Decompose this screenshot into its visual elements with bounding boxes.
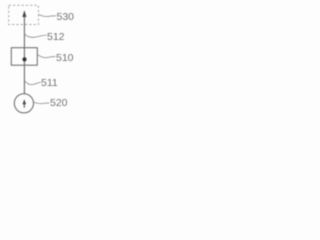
- wire from dot down to circle 520: [23, 61, 25, 94]
- arrowhead in dashed box: [22, 10, 26, 17]
- arrowhead in circle 520: [23, 99, 27, 104]
- svg-text:511: 511: [41, 77, 58, 89]
- svg-text:520: 520: [50, 97, 68, 109]
- circle 520: [14, 94, 33, 113]
- leader to 512: [24, 33, 46, 37]
- leader to 510: [37, 55, 55, 58]
- svg-text:512: 512: [47, 31, 65, 43]
- leader to 530: [39, 14, 56, 16]
- box 510: [11, 48, 37, 65]
- dashed box 530: [9, 5, 39, 24]
- mass dot in box 510: [22, 57, 26, 61]
- leader to 511: [24, 80, 40, 84]
- svg-text:510: 510: [56, 52, 74, 64]
- wire arrow stem from box 510 up into dashed box: [23, 15, 25, 48]
- wire inside box 510 down to mass dot: [23, 48, 25, 58]
- leader to 520: [34, 102, 50, 103]
- svg-text:530: 530: [57, 11, 75, 23]
- arrow stem inside circle: [23, 103, 25, 108]
